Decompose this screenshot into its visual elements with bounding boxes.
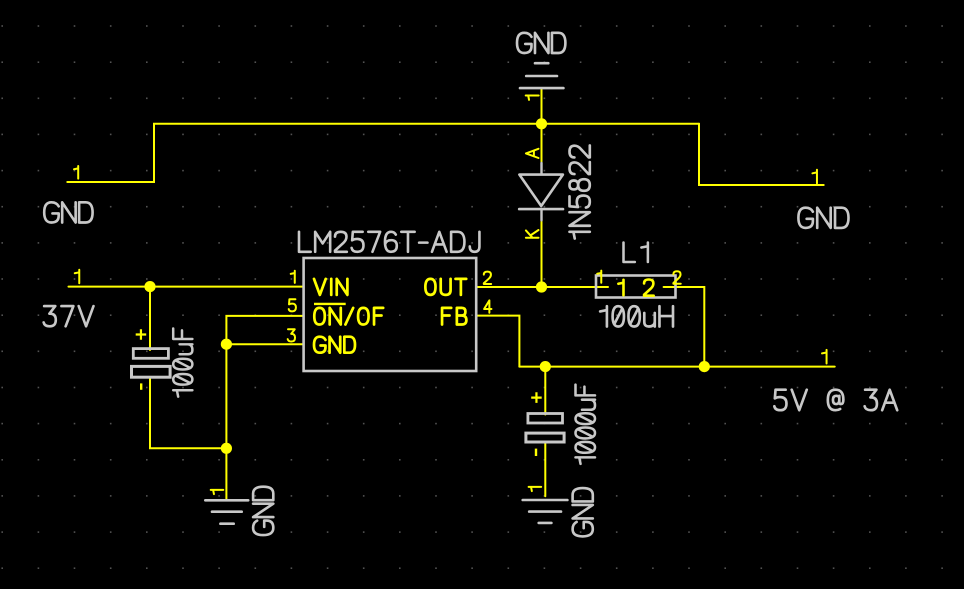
overline ON xyxy=(314,303,346,305)
pin label K xyxy=(526,230,539,238)
net label GND bottom-left xyxy=(253,487,273,535)
C1 plus mark xyxy=(136,329,147,340)
pin number 2 xyxy=(484,272,491,284)
capacitor C1 plate bottom xyxy=(132,366,171,377)
C1 minus mark xyxy=(140,383,142,389)
node output-L1 junction xyxy=(699,361,710,372)
ground symbol mid bar mid xyxy=(529,510,561,513)
ground symbol top bar mid xyxy=(526,75,557,78)
wire 37V input xyxy=(69,286,304,288)
node C1-return junction xyxy=(221,443,232,454)
wire end 1 input xyxy=(75,270,80,284)
wire diode anode to rail xyxy=(541,124,543,163)
label C1 value 100uF xyxy=(173,328,192,396)
ground symbol left bar short xyxy=(220,522,233,525)
ground top pin label 1 xyxy=(526,96,539,100)
pin label A xyxy=(526,149,539,158)
ground symbol top bar short xyxy=(535,62,548,65)
label U1 name xyxy=(299,232,479,252)
label L1 value 100uH xyxy=(600,306,673,326)
wire GND top rail xyxy=(67,124,699,182)
wire diode cathode to OUT net xyxy=(541,220,543,287)
wire end 1 top-left xyxy=(74,166,78,179)
pin name OUT xyxy=(425,279,466,295)
node 37V-C1 junction xyxy=(144,281,155,292)
wire C1 drop lower xyxy=(150,378,226,449)
wire GND pin3 xyxy=(226,343,303,345)
pin number 5 xyxy=(289,299,296,311)
wire C2 drop lower xyxy=(544,443,546,496)
label D1 value 1N5822 xyxy=(569,145,589,238)
ground symbol mid bar short xyxy=(539,522,552,525)
label C2 value 1000uF xyxy=(576,385,596,464)
ground left pin label 1 xyxy=(211,490,224,494)
pin name FB xyxy=(442,308,466,325)
wire gnd drop left xyxy=(225,448,227,499)
pin number 3 xyxy=(288,329,295,341)
wire GND symbol stub top xyxy=(541,89,543,124)
ground mid pin label 1 xyxy=(529,487,542,491)
node pin5-pin3 junction xyxy=(221,339,232,350)
capacitor C2 plate bottom xyxy=(526,433,564,442)
wire FB pin4 xyxy=(477,316,519,367)
L1 pin name 2 xyxy=(644,280,654,296)
pin name VIN xyxy=(314,279,347,295)
net label GND top xyxy=(517,33,565,53)
pin name GND xyxy=(314,337,355,353)
wire end 1 top-right xyxy=(812,170,817,184)
L1 pin name 1 xyxy=(618,280,623,295)
L1 pin number 2 xyxy=(673,271,680,283)
wire end 1 output xyxy=(822,350,827,364)
wire ON/OF pin5 xyxy=(226,316,303,448)
inductor L1 box xyxy=(596,276,676,298)
wire output net xyxy=(519,366,834,368)
C2 plus mark xyxy=(531,392,542,403)
node rail-diode junction xyxy=(536,118,547,129)
node output-C2 junction xyxy=(540,361,551,372)
label L1 name xyxy=(624,243,648,263)
ground symbol left bar mid xyxy=(212,510,242,513)
net label GND right xyxy=(798,208,848,228)
node OUT-diode junction xyxy=(536,281,547,292)
net label GND left xyxy=(44,202,92,222)
wire L1 to output corner xyxy=(664,287,705,367)
net label 37V xyxy=(44,306,94,326)
pin number 4 xyxy=(484,300,491,312)
op-amp U1 LM2576T-ADJ box xyxy=(304,258,477,371)
wire OUT to L1 xyxy=(477,286,608,288)
ground symbol top bar long xyxy=(520,87,563,90)
C2 minus mark xyxy=(535,449,537,456)
wire C2 drop upper xyxy=(544,367,546,415)
ground symbol left bar long xyxy=(205,499,248,502)
wire GND rail right drop xyxy=(699,124,824,185)
diode D1 pin stub anode xyxy=(540,163,542,174)
capacitor C1 plate top xyxy=(133,349,168,359)
pin number 1 xyxy=(291,271,295,283)
net label 5V @ 3A xyxy=(774,390,897,410)
net label GND bottom-middle xyxy=(573,488,593,536)
ground symbol mid bar long xyxy=(523,499,568,502)
capacitor C2 plate top xyxy=(528,414,563,424)
L1 pin number 1 xyxy=(597,271,601,283)
pin name ON/OF xyxy=(314,308,383,325)
diode D1 cathode bar xyxy=(519,208,563,211)
wire C1 drop upper xyxy=(149,287,151,350)
diode D1 triangle xyxy=(519,175,563,206)
diode D1 pin stub cathode xyxy=(540,209,542,220)
